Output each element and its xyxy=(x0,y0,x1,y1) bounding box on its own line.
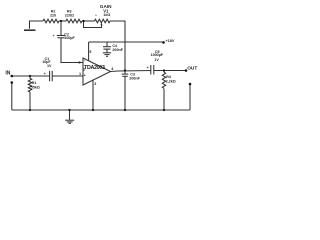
svg-text:100µF: 100µF xyxy=(64,36,75,40)
svg-text:2: 2 xyxy=(78,60,80,64)
svg-text:200nF: 200nF xyxy=(112,48,123,52)
svg-text:+: + xyxy=(53,34,55,38)
svg-text:4: 4 xyxy=(111,67,114,71)
svg-text:200nF: 200nF xyxy=(129,76,140,80)
svg-text:1000µF: 1000µF xyxy=(151,53,164,57)
svg-text:3: 3 xyxy=(94,82,96,86)
svg-text:V1: V1 xyxy=(103,9,109,14)
svg-text:*: * xyxy=(95,14,97,18)
svg-text:IN: IN xyxy=(5,71,10,77)
svg-text:1V: 1V xyxy=(154,58,159,62)
svg-text:+: + xyxy=(147,66,149,70)
svg-text:TDA2003: TDA2003 xyxy=(84,65,105,71)
svg-text:+: + xyxy=(44,72,46,76)
svg-text:1kΩ: 1kΩ xyxy=(103,13,110,17)
svg-text:220: 220 xyxy=(50,13,56,17)
svg-text:5: 5 xyxy=(89,50,91,54)
svg-text:2,2kΩ: 2,2kΩ xyxy=(166,80,176,84)
svg-text:+18V: +18V xyxy=(165,39,174,43)
svg-text:1: 1 xyxy=(79,72,81,76)
svg-text:R4: R4 xyxy=(166,75,171,79)
svg-text:1V: 1V xyxy=(47,64,52,68)
svg-text:+: + xyxy=(84,74,86,78)
svg-text:55kΩ: 55kΩ xyxy=(31,86,40,90)
svg-text:OUT: OUT xyxy=(187,65,197,71)
svg-text:220Ω: 220Ω xyxy=(65,13,74,17)
